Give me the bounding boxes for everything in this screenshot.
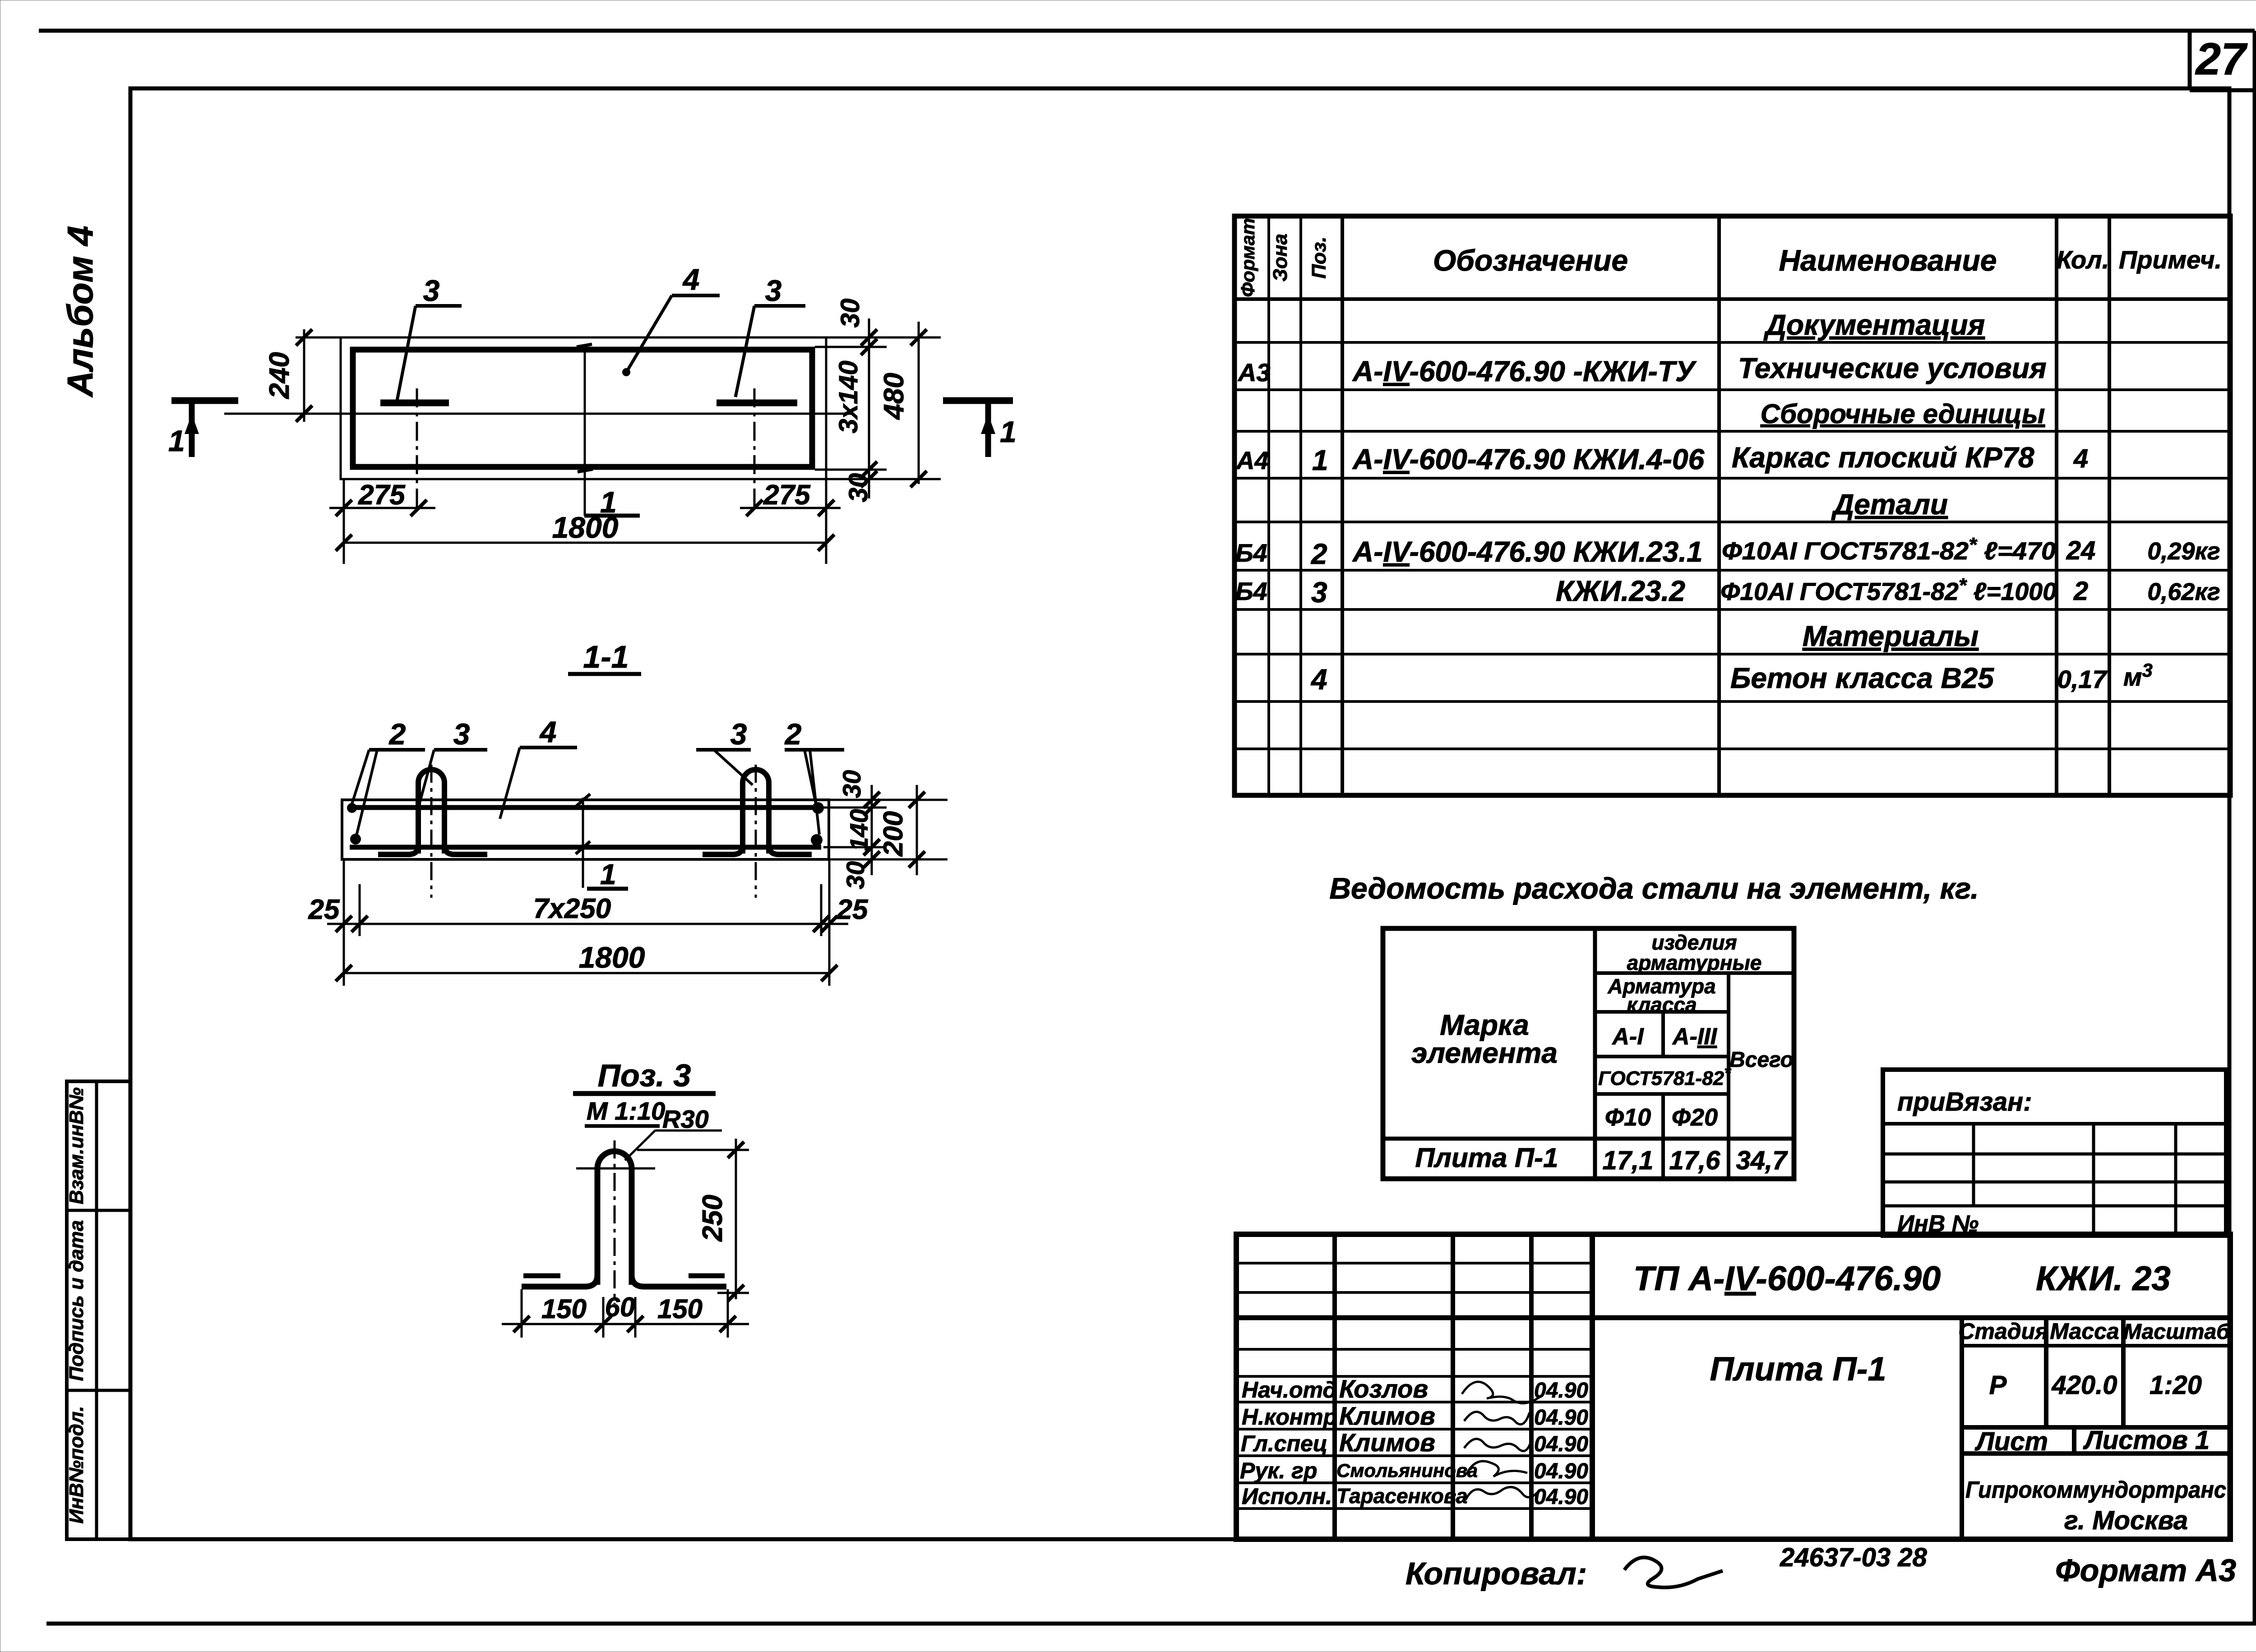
svg-text:1:20: 1:20 bbox=[2150, 1371, 2202, 1400]
svg-text:3: 3 bbox=[1311, 576, 1327, 609]
svg-text:А-IV-600-476.90 -КЖИ-ТУ: А-IV-600-476.90 -КЖИ-ТУ bbox=[1352, 355, 1697, 388]
svg-text:Подпись и дата: Подпись и дата bbox=[65, 1220, 88, 1381]
svg-text:Рук. гр: Рук. гр bbox=[1240, 1458, 1318, 1483]
svg-text:Ф10: Ф10 bbox=[1605, 1104, 1651, 1131]
svg-text:24637-03 28: 24637-03 28 bbox=[1780, 1543, 1927, 1572]
svg-text:Документация: Документация bbox=[1763, 309, 1985, 341]
svg-text:Лист: Лист bbox=[1974, 1427, 2048, 1456]
svg-text:Климов: Климов bbox=[1339, 1428, 1435, 1457]
svg-text:Всего: Всего bbox=[1729, 1048, 1794, 1072]
svg-text:Наименование: Наименование bbox=[1779, 244, 1997, 277]
svg-text:1: 1 bbox=[1312, 444, 1328, 476]
svg-text:17,1: 17,1 bbox=[1603, 1146, 1654, 1175]
svg-text:КЖИ.23.2: КЖИ.23.2 bbox=[1556, 575, 1685, 607]
svg-text:Нач.отд: Нач.отд bbox=[1242, 1377, 1336, 1403]
svg-text:м3: м3 bbox=[2123, 660, 2153, 691]
svg-text:Ф20: Ф20 bbox=[1672, 1104, 1718, 1131]
svg-text:Формат: Формат bbox=[1237, 218, 1258, 297]
svg-text:приВязан:: приВязан: bbox=[1897, 1087, 2032, 1117]
svg-text:ГОСТ5781-82*: ГОСТ5781-82* bbox=[1598, 1064, 1732, 1089]
svg-text:Смольянинова: Смольянинова bbox=[1336, 1460, 1478, 1481]
svg-text:Гл.спец: Гл.спец bbox=[1241, 1431, 1327, 1456]
svg-text:Масштаб: Масштаб bbox=[2123, 1320, 2230, 1344]
svg-text:Альбом 4: Альбом 4 bbox=[60, 226, 100, 397]
svg-text:А3: А3 bbox=[1237, 358, 1271, 387]
svg-text:3: 3 bbox=[423, 274, 440, 307]
svg-text:04.90: 04.90 bbox=[1534, 1485, 1588, 1509]
svg-text:30: 30 bbox=[836, 299, 865, 328]
svg-text:Материалы: Материалы bbox=[1803, 620, 1979, 652]
svg-text:Ведомость расхода стали на эле: Ведомость расхода стали на элемент, кг. bbox=[1329, 872, 1979, 905]
svg-text:0,62кг: 0,62кг bbox=[2147, 578, 2220, 605]
svg-text:140: 140 bbox=[845, 809, 873, 851]
svg-text:2: 2 bbox=[784, 717, 802, 751]
svg-text:4: 4 bbox=[1310, 663, 1327, 696]
svg-text:04.90: 04.90 bbox=[1534, 1432, 1588, 1456]
svg-text:Формат А3: Формат А3 bbox=[2055, 1553, 2236, 1588]
svg-text:275: 275 bbox=[763, 480, 811, 511]
svg-text:2: 2 bbox=[1311, 538, 1327, 570]
svg-text:30: 30 bbox=[837, 770, 866, 798]
svg-text:480: 480 bbox=[878, 373, 910, 420]
svg-text:4: 4 bbox=[682, 263, 700, 296]
svg-text:2: 2 bbox=[388, 717, 406, 751]
svg-text:Сборочные единицы: Сборочные единицы bbox=[1761, 399, 2045, 429]
svg-text:25: 25 bbox=[308, 894, 340, 925]
svg-text:150: 150 bbox=[541, 1294, 587, 1324]
svg-text:7х250: 7х250 bbox=[533, 893, 611, 924]
svg-text:А-IV-600-476.90 КЖИ.4-06: А-IV-600-476.90 КЖИ.4-06 bbox=[1352, 443, 1705, 475]
svg-text:Кол.: Кол. bbox=[2057, 245, 2109, 274]
svg-text:24: 24 bbox=[2066, 536, 2096, 565]
svg-text:4: 4 bbox=[539, 715, 557, 748]
svg-text:30: 30 bbox=[841, 861, 869, 889]
svg-text:25: 25 bbox=[837, 894, 869, 925]
svg-text:Поз.: Поз. bbox=[1308, 236, 1330, 278]
svg-text:Б4: Б4 bbox=[1235, 577, 1267, 605]
svg-text:Гипрокоммундортранс: Гипрокоммундортранс bbox=[1965, 1477, 2226, 1503]
svg-text:04.90: 04.90 bbox=[1534, 1406, 1588, 1430]
svg-text:30: 30 bbox=[844, 473, 873, 503]
svg-text:А4: А4 bbox=[1235, 446, 1269, 475]
svg-text:Примеч.: Примеч. bbox=[2119, 245, 2222, 274]
svg-text:М 1:10: М 1:10 bbox=[587, 1097, 665, 1125]
svg-text:3: 3 bbox=[730, 717, 747, 751]
svg-text:А-IV-600-476.90 КЖИ.23.1: А-IV-600-476.90 КЖИ.23.1 bbox=[1352, 535, 1703, 568]
svg-text:Обозначение: Обозначение bbox=[1433, 244, 1628, 277]
svg-text:4: 4 bbox=[2073, 444, 2088, 473]
svg-text:240: 240 bbox=[264, 352, 295, 399]
svg-text:Ф10АI ГОСТ5781-82* ℓ=470: Ф10АI ГОСТ5781-82* ℓ=470 bbox=[1722, 534, 2056, 565]
svg-text:2: 2 bbox=[2073, 577, 2088, 606]
svg-text:200: 200 bbox=[878, 811, 908, 857]
svg-text:арматурные: арматурные bbox=[1627, 951, 1762, 974]
svg-text:Стадия: Стадия bbox=[1958, 1319, 2048, 1344]
svg-text:420.0: 420.0 bbox=[2051, 1371, 2117, 1400]
svg-text:04.90: 04.90 bbox=[1534, 1459, 1588, 1483]
svg-text:1-1: 1-1 bbox=[583, 639, 629, 674]
svg-text:Копировал:: Копировал: bbox=[1405, 1556, 1587, 1591]
svg-text:Взам.инВ№: Взам.инВ№ bbox=[65, 1087, 88, 1204]
svg-text:Технические условия: Технические условия bbox=[1738, 352, 2047, 384]
svg-text:Поз. 3: Поз. 3 bbox=[598, 1058, 691, 1093]
svg-text:04.90: 04.90 bbox=[1534, 1379, 1588, 1403]
svg-text:Листов 1: Листов 1 bbox=[2083, 1426, 2210, 1455]
svg-text:Климов: Климов bbox=[1339, 1402, 1435, 1430]
svg-text:КЖИ. 23: КЖИ. 23 bbox=[2036, 1260, 2171, 1298]
svg-text:R30: R30 bbox=[662, 1105, 709, 1133]
svg-text:Масса: Масса bbox=[2050, 1319, 2119, 1344]
svg-text:250: 250 bbox=[697, 1195, 728, 1241]
svg-text:27: 27 bbox=[2195, 34, 2248, 84]
svg-text:ТП А-IV-600-476.90: ТП А-IV-600-476.90 bbox=[1633, 1260, 1941, 1298]
svg-text:Бетон класса В25: Бетон класса В25 bbox=[1730, 662, 1994, 694]
svg-text:3х140: 3х140 bbox=[834, 360, 863, 433]
svg-text:ИнВ№подл.: ИнВ№подл. bbox=[65, 1406, 88, 1524]
svg-text:Н.контр: Н.контр bbox=[1242, 1404, 1337, 1430]
svg-text:Детали: Детали bbox=[1831, 488, 1948, 521]
svg-text:Каркас плоский КР78: Каркас плоский КР78 bbox=[1732, 441, 2034, 474]
svg-text:элемента: элемента bbox=[1411, 1037, 1558, 1069]
svg-text:275: 275 bbox=[358, 480, 406, 511]
svg-text:Р: Р bbox=[1989, 1371, 2007, 1400]
svg-text:класса: класса bbox=[1627, 993, 1697, 1016]
svg-text:34,7: 34,7 bbox=[1736, 1146, 1789, 1175]
svg-text:150: 150 bbox=[657, 1294, 703, 1324]
svg-text:А-III: А-III bbox=[1672, 1024, 1718, 1050]
svg-text:0,17: 0,17 bbox=[2057, 665, 2108, 693]
svg-text:3: 3 bbox=[453, 717, 470, 751]
svg-text:1: 1 bbox=[168, 424, 185, 457]
svg-text:3: 3 bbox=[765, 274, 782, 307]
svg-text:1800: 1800 bbox=[579, 941, 645, 974]
svg-text:Плита П-1: Плита П-1 bbox=[1415, 1143, 1558, 1173]
svg-text:1800: 1800 bbox=[552, 511, 619, 544]
svg-text:Козлов: Козлов bbox=[1339, 1375, 1428, 1403]
svg-text:Плита П-1: Плита П-1 bbox=[1710, 1350, 1886, 1388]
svg-text:Б4: Б4 bbox=[1235, 539, 1267, 567]
svg-text:17,6: 17,6 bbox=[1669, 1146, 1721, 1175]
svg-text:1: 1 bbox=[1000, 415, 1017, 448]
svg-text:г. Москва: г. Москва bbox=[2064, 1506, 2188, 1535]
svg-text:60: 60 bbox=[605, 1292, 635, 1322]
svg-text:Ф10АI ГОСТ5781-82* ℓ=1000: Ф10АI ГОСТ5781-82* ℓ=1000 bbox=[1720, 574, 2057, 605]
svg-text:Тарасенкова: Тарасенкова bbox=[1336, 1484, 1468, 1508]
svg-text:А-I: А-I bbox=[1611, 1024, 1644, 1050]
svg-text:1: 1 bbox=[600, 858, 616, 891]
svg-text:Исполн.: Исполн. bbox=[1242, 1484, 1332, 1509]
svg-text:0,29кг: 0,29кг bbox=[2147, 538, 2220, 565]
svg-text:Зона: Зона bbox=[1269, 234, 1291, 281]
